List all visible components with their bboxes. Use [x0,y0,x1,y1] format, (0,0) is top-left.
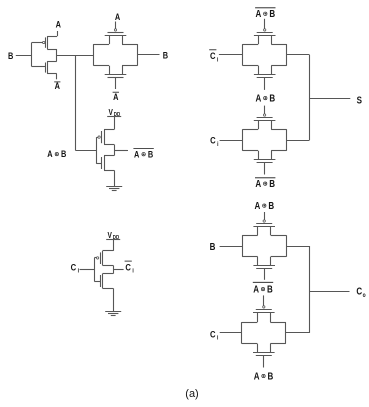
wire U2 output [113,269,123,271]
svg-text:A: A [256,93,262,104]
wire TG5 output to Co bus [286,332,310,334]
wire to TG3 PMOS gate [264,106,266,114]
wire control to TG2 PMOS gate [264,19,266,29]
wire VDD to U1 PMOS source [104,117,115,130]
transistor U2 PMOS (channel) [101,251,103,266]
wire U2 NMOS drain lead [103,273,114,275]
node B label (TG1 right) [163,50,168,61]
wire U1 output [114,150,128,152]
svg-text:C: C [210,50,216,61]
node A xor B label (TG5 bottom control) [254,370,274,381]
svg-text:A: A [56,19,61,30]
transistor U1 PMOS (channel) [102,130,105,145]
node A xnor B label (TG3 bottom control) [255,178,275,189]
svg-text:B: B [8,50,13,61]
svg-text:B: B [269,178,275,189]
svg-text:V: V [108,230,112,240]
power VDD (inverter U2) [106,230,120,241]
wire to TG5 PMOS gate [263,295,265,305]
svg-text:B: B [268,370,274,381]
ground (inverter U2) [105,312,121,316]
transistor Q1 PMOS pass (channel) [46,36,48,49]
node Ci bar label (U2 output) [125,261,135,275]
svg-text:i: i [217,57,219,64]
node A xnor B label (TG2 top control) [255,8,275,19]
transmission gate TG4 [242,220,286,269]
wire XOR output node [57,55,94,57]
transmission gate TG1 [94,29,138,78]
wire Q2 gate lead [32,66,45,68]
wire A xor B bus down [76,55,97,150]
wire U2 PMOS drain to output [103,265,114,273]
wire Q1 source lead [47,49,57,51]
svg-text:A: A [256,8,262,19]
svg-text:C: C [210,135,216,146]
transistor U1 NMOS (channel) [102,156,105,171]
node S label [357,95,362,106]
svg-text:C: C [71,261,77,272]
node Ci bar label (TG2 input) [209,50,219,64]
wire TG3 output to S bus [287,140,310,142]
svg-text:A: A [47,148,52,159]
node Ci label (TG3 input) [210,135,219,148]
wire TG2 NMOS gate lead [264,77,266,90]
node B label (left) [8,50,13,61]
wire TG4 output to Co bus [286,246,310,248]
svg-text:A: A [254,370,260,381]
svg-text:C: C [356,286,362,297]
wire Ci to TG5 [220,332,242,334]
node Abar label (bottom of pass pair) [54,80,60,91]
wire B to TG4 [220,246,243,248]
svg-text:A: A [255,178,261,189]
svg-text:C: C [125,262,131,273]
wire Ci bar to TG2 [219,54,243,56]
svg-text:B: B [61,148,66,159]
wire gate rail (B input) [31,43,33,67]
transmission gate TG2 [243,29,287,78]
node Co label [356,286,366,299]
wire TG5 NMOS gate lead [263,355,265,367]
transistor U2 NMOS (channel) [101,274,103,289]
transistor U2 PMOS gate bubble [96,257,98,259]
ground (inverter U1) [106,187,122,191]
wire Q2 source to Abar [47,74,57,80]
wire TG3 NMOS gate lead [264,162,266,174]
wire U1 NMOS drain lead [104,155,114,157]
node B label (TG4 input) [210,241,216,252]
svg-text:o: o [363,292,367,299]
node Abar label (below TG1) [113,91,119,102]
svg-text:B: B [268,200,274,211]
wire Co output bus [310,246,350,333]
svg-text:A: A [115,11,120,22]
node A label (TG1 control) [115,11,120,22]
svg-text:i: i [132,268,134,275]
svg-text:i: i [78,268,80,275]
wire U2 NMOS source to ground [103,288,114,311]
transistor U1 PMOS gate bubble [98,136,100,138]
node A xnor B label (U1 output) [133,148,153,159]
wire A to TG1 PMOS gate [115,22,117,29]
svg-text:B: B [269,93,275,104]
wire B to gate rail [16,55,32,57]
caption (a) [185,388,198,400]
svg-text:B: B [148,148,153,159]
transistor Q2 NMOS pass (channel) [46,61,48,74]
svg-text:V: V [109,107,113,117]
svg-text:B: B [269,8,275,19]
wire Q1/Q2 common node [56,49,58,61]
wire TG1 right to B [138,54,160,56]
svg-text:C: C [210,328,216,339]
transistor Q1 gate bubble [43,41,45,43]
transmission gate TG3 [243,114,287,163]
wire Q1 gate lead [32,42,43,44]
svg-text:B: B [267,284,273,295]
transmission gate TG5 [242,306,286,356]
svg-text:B: B [210,241,216,252]
wire U1 gate rail [97,137,102,164]
node A xor B label (TG4 top control) [255,200,275,211]
node Ci label (U2 input) [71,261,80,274]
wire Ci to TG3 [220,140,243,142]
node Ci label (TG5 input) [210,328,219,341]
power VDD (inverter U1) [107,107,121,118]
node A xor B label (sum mid control) [256,93,276,104]
wire Ci to U2 gate rail [80,269,95,271]
wire TG4 NMOS gate lead [264,268,266,280]
svg-text:i: i [217,335,219,342]
wire U2 gate rail [94,258,100,282]
wire TG1 NMOS gate to Abar [115,77,117,89]
node A xnor B label (carry mid control) [253,282,273,294]
wire Q2 drain lead [47,61,57,63]
wire S output bus [310,55,351,140]
wire control to TG4 PMOS gate [264,212,266,220]
svg-text:A: A [255,200,261,211]
svg-text:A: A [253,284,259,295]
svg-text:(a): (a) [185,388,198,400]
wire VDD to U2 PMOS source [103,240,114,251]
wire U1 NMOS source to ground [104,170,115,186]
node A label (pass pair control) [56,19,61,30]
svg-text:S: S [357,95,362,106]
svg-text:A: A [113,91,118,102]
wire A to pass-pair drain [47,31,57,37]
svg-text:B: B [163,50,168,61]
node A xor B label (inverter input) [47,148,66,159]
wire U1 PMOS drain to output [104,145,115,156]
wire TG2 output to S bus [287,54,310,56]
svg-text:i: i [217,141,219,148]
svg-text:A: A [134,148,139,159]
